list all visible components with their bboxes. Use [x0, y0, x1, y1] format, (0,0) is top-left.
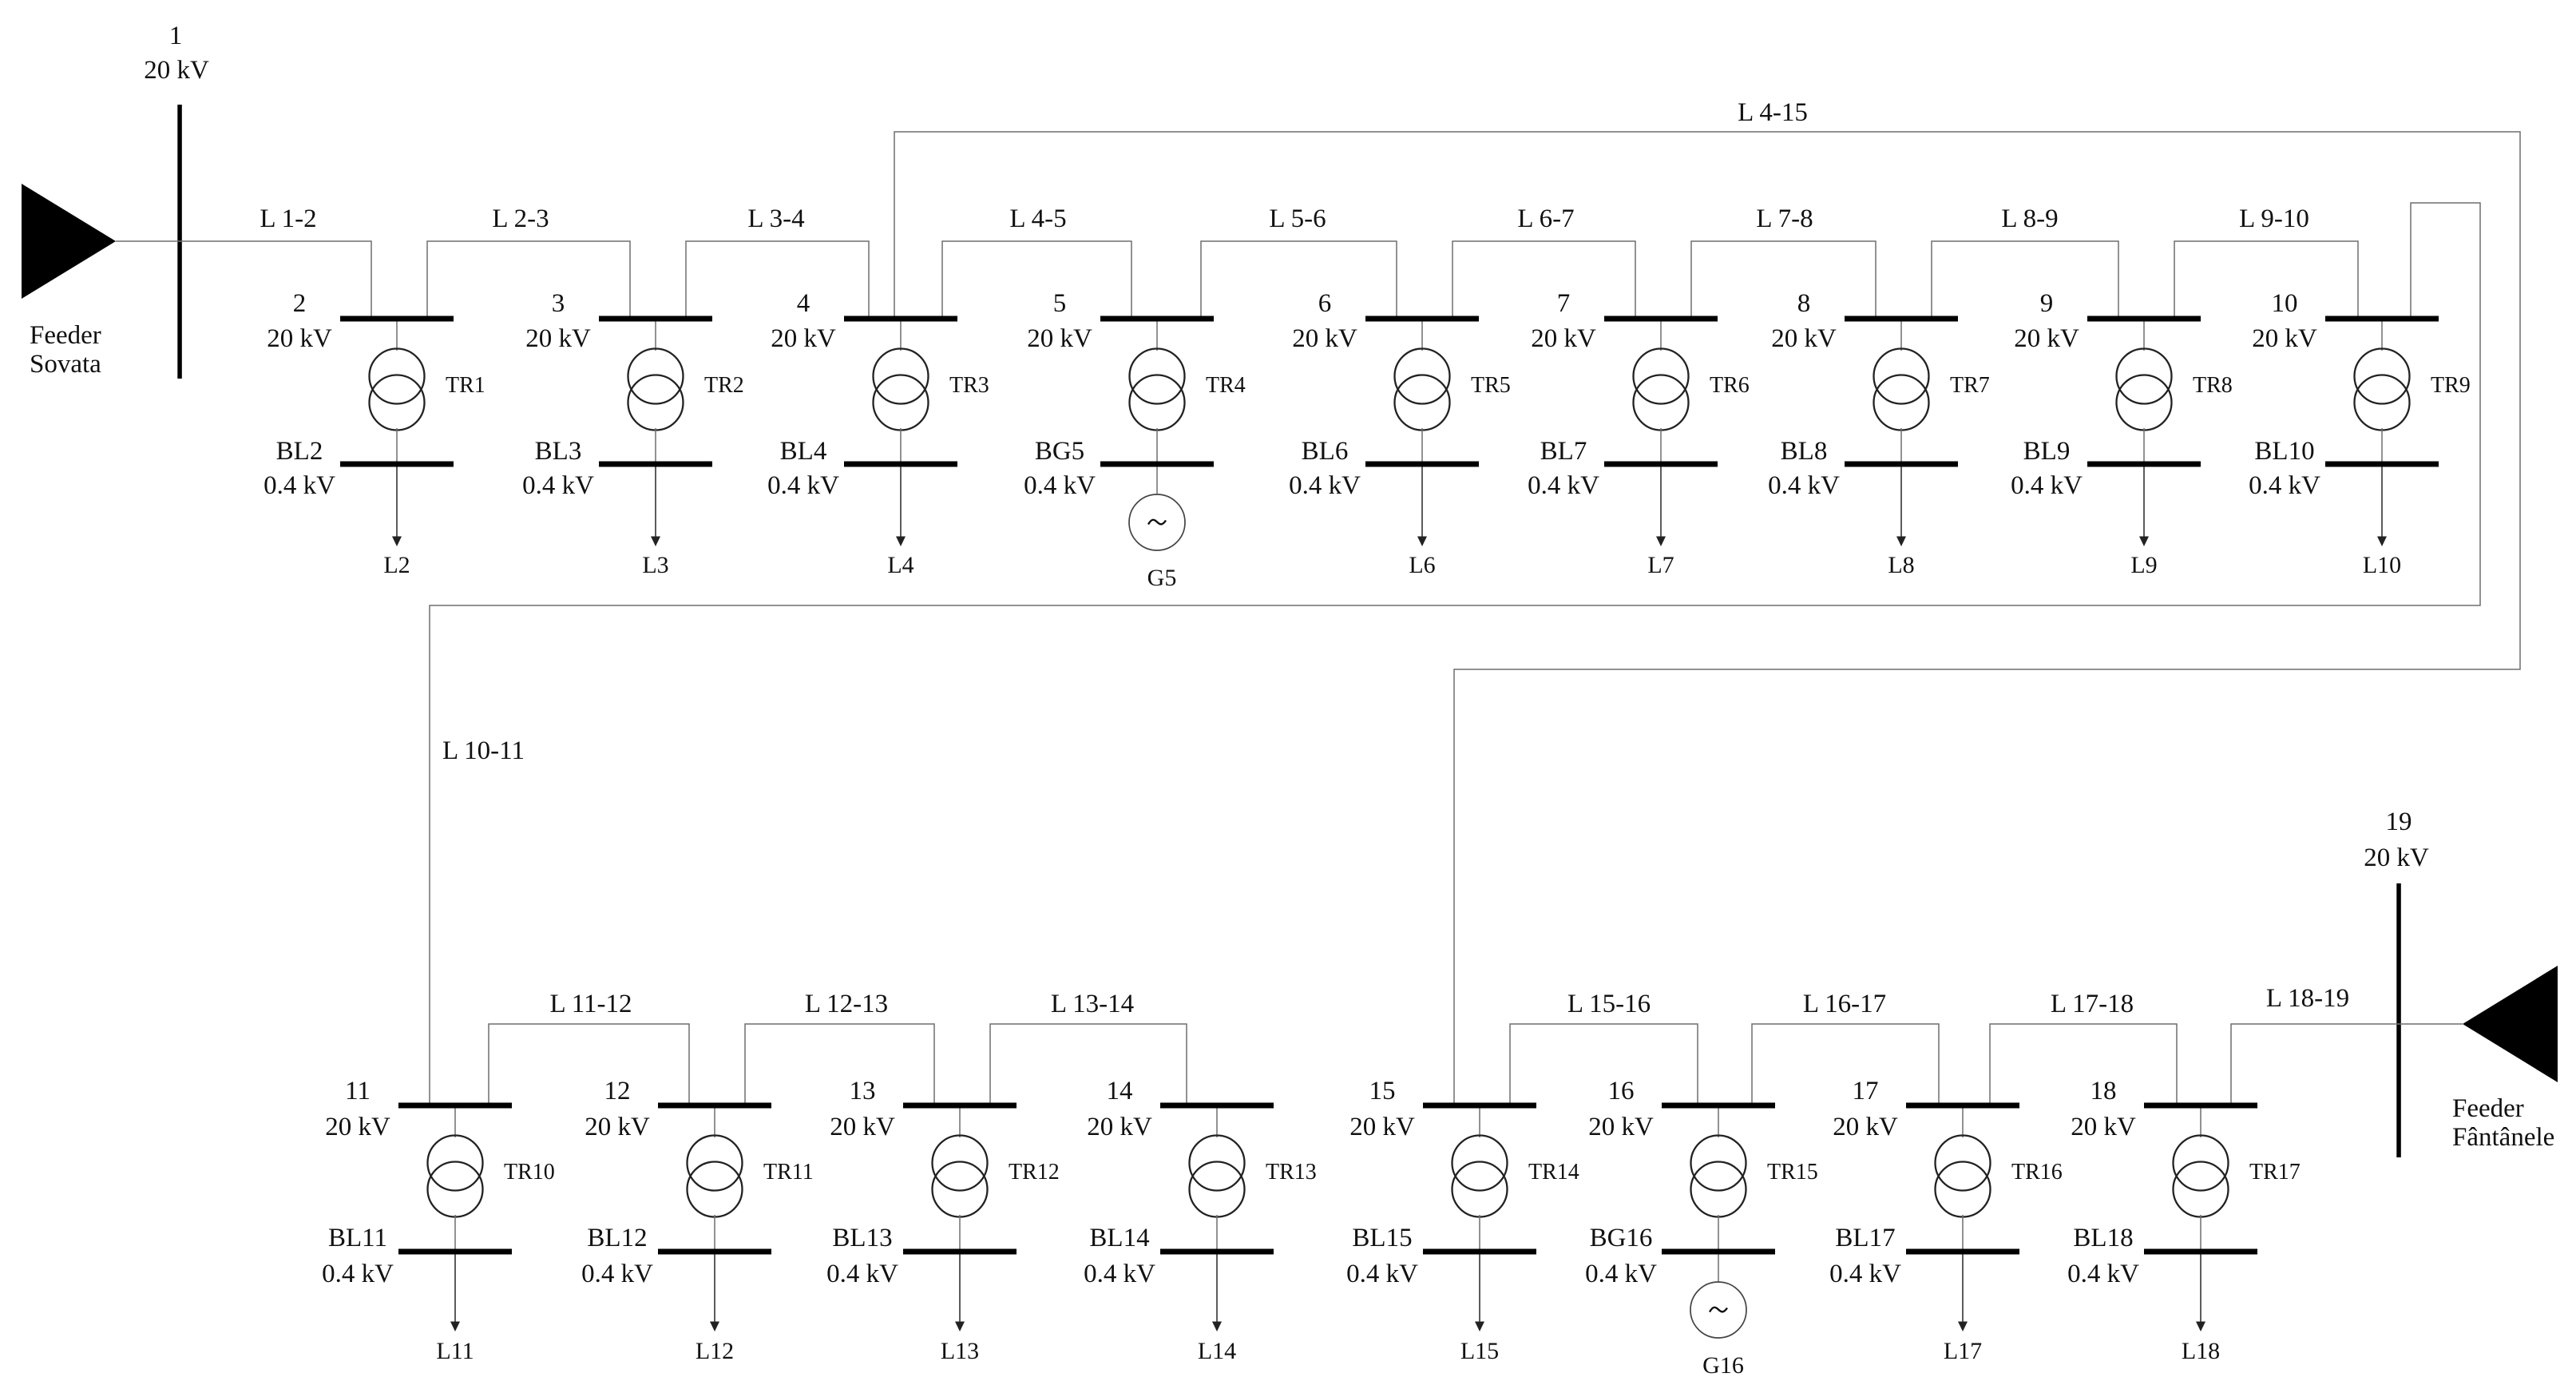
- busbar 10 (20 kV): [2325, 316, 2439, 322]
- svg-text:6: 6: [1318, 289, 1332, 318]
- label 20 kV (bus 19): [2364, 843, 2429, 872]
- label load L15: [1460, 1338, 1499, 1364]
- label TR17: [2249, 1160, 2301, 1185]
- label TR12: [1009, 1160, 1060, 1185]
- svg-text:TR6: TR6: [1710, 373, 1750, 398]
- busbar BL6 (0.4 kV): [1365, 462, 1479, 467]
- wire bus 4 to transformer TR3: [900, 322, 902, 351]
- label TR5: [1471, 373, 1511, 398]
- load L11 arrow: [450, 1255, 460, 1332]
- svg-text:BL10: BL10: [2254, 437, 2314, 466]
- transformer TR6: [1634, 349, 1689, 431]
- svg-text:BG16: BG16: [1590, 1224, 1653, 1252]
- busbar 13 (20 kV): [903, 1103, 1017, 1109]
- svg-text:20 kV: 20 kV: [1588, 1113, 1654, 1141]
- feeder Fantanele source arrow: [2463, 966, 2558, 1082]
- svg-text:20 kV: 20 kV: [1349, 1113, 1415, 1141]
- label bus 2 number: [293, 289, 307, 318]
- busbar 15 (20 kV): [1423, 1103, 1536, 1109]
- label bus 7 number: [1557, 289, 1571, 318]
- label 0.4 kV (bus 16): [1585, 1260, 1657, 1288]
- wire bus 5 to transformer TR4: [1156, 322, 1158, 351]
- label 20 kV (bus 18): [2071, 1113, 2136, 1141]
- svg-text:0.4 kV: 0.4 kV: [1024, 471, 1096, 500]
- busbar 17 (20 kV): [1906, 1103, 2019, 1109]
- label load L6: [1409, 552, 1435, 578]
- svg-text:0.4 kV: 0.4 kV: [581, 1260, 653, 1288]
- svg-text:20 kV: 20 kV: [2071, 1113, 2136, 1141]
- svg-text:BL3: BL3: [535, 437, 582, 466]
- label L 2-3: [492, 204, 549, 233]
- label L 11-12: [550, 990, 632, 1018]
- svg-text:BL17: BL17: [1835, 1224, 1895, 1252]
- wire bus 2 to transformer TR1: [396, 322, 398, 351]
- label BL18: [2073, 1224, 2133, 1252]
- wire L 10-11 (bus 10 to bus 11 tie line): [430, 203, 2480, 1103]
- wire L 11-12: [489, 1024, 689, 1103]
- wire transformer TR5 to busbar BL6: [1421, 428, 1423, 462]
- label 20 kV (bus 12): [585, 1113, 650, 1141]
- svg-text:L 12-13: L 12-13: [805, 990, 888, 1018]
- svg-text:BL6: BL6: [1302, 437, 1349, 466]
- wire transformer TR11 to busbar BL12: [714, 1215, 715, 1249]
- svg-text:L8: L8: [1888, 552, 1914, 578]
- wire transformer TR2 to busbar BL3: [655, 428, 656, 462]
- wire bus 3 to transformer TR2: [655, 322, 656, 351]
- svg-text:20 kV: 20 kV: [1292, 324, 1357, 353]
- wire transformer TR8 to busbar BL9: [2143, 428, 2145, 462]
- wire transformer TR17 to busbar BL18: [2200, 1215, 2201, 1249]
- label bus 9 number: [2040, 289, 2054, 318]
- busbar 16 (20 kV): [1662, 1103, 1775, 1109]
- busbar 8 (20 kV): [1845, 316, 1958, 322]
- label load L11: [436, 1338, 474, 1364]
- wire L 18-19: [2231, 1024, 2463, 1103]
- svg-text:0.4 kV: 0.4 kV: [2249, 471, 2320, 500]
- busbar BL7 (0.4 kV): [1604, 462, 1718, 467]
- svg-text:G5: G5: [1147, 565, 1177, 591]
- svg-text:4: 4: [797, 289, 810, 318]
- label bus 6 number: [1318, 289, 1332, 318]
- svg-text:9: 9: [2040, 289, 2054, 318]
- wire transformer TR12 to busbar BL13: [959, 1215, 961, 1249]
- wire bus 12 to transformer TR11: [714, 1109, 715, 1138]
- load L4 arrow: [896, 467, 906, 547]
- label BG16: [1590, 1224, 1653, 1252]
- label BL2: [276, 437, 323, 466]
- svg-text:L 10-11: L 10-11: [442, 736, 525, 765]
- label L 3-4: [747, 204, 804, 233]
- svg-text:14: 14: [1107, 1077, 1133, 1105]
- label TR14: [1528, 1160, 1579, 1185]
- svg-text:Fântânele: Fântânele: [2452, 1123, 2554, 1152]
- wire L 2-3: [427, 241, 630, 316]
- label L 1-2: [260, 204, 316, 233]
- svg-text:Feeder: Feeder: [30, 321, 101, 350]
- wire transformer TR4 to busbar BG5: [1156, 428, 1158, 462]
- label load L12: [696, 1338, 734, 1364]
- label BL4: [780, 437, 827, 466]
- label BL8: [1781, 437, 1828, 466]
- wire L 4-15 (bus 4 to bus 15 tie line): [894, 132, 2520, 1103]
- svg-text:20 kV: 20 kV: [1027, 324, 1092, 353]
- svg-text:L18: L18: [2182, 1338, 2220, 1364]
- svg-text:0.4 kV: 0.4 kV: [1289, 471, 1361, 500]
- label TR1: [446, 373, 485, 398]
- svg-text:BL14: BL14: [1089, 1224, 1149, 1252]
- label BG5: [1035, 437, 1084, 466]
- label L 5-6: [1269, 204, 1326, 233]
- svg-text:12: 12: [604, 1077, 631, 1105]
- svg-text:L12: L12: [696, 1338, 734, 1364]
- svg-text:0.4 kV: 0.4 kV: [322, 1260, 394, 1288]
- wire bus 14 to transformer TR13: [1216, 1109, 1218, 1138]
- svg-text:BL9: BL9: [2023, 437, 2071, 466]
- svg-text:20 kV: 20 kV: [325, 1113, 390, 1141]
- label bus 16 number: [1608, 1077, 1635, 1105]
- label TR7: [1950, 373, 1990, 398]
- wire busbar BG16 to generator G16: [1718, 1255, 1719, 1283]
- label L 8-9: [2001, 204, 2058, 233]
- svg-text:BL11: BL11: [328, 1224, 387, 1252]
- svg-text:TR16: TR16: [2011, 1160, 2063, 1185]
- busbar BL14 (0.4 kV): [1160, 1249, 1274, 1255]
- load L3 arrow: [651, 467, 660, 547]
- svg-text:Feeder: Feeder: [2452, 1094, 2524, 1123]
- label bus 1: [169, 22, 183, 50]
- wire transformer TR1 to busbar BL2: [396, 428, 398, 462]
- wire L 16-17: [1752, 1024, 1939, 1103]
- svg-text:10: 10: [2272, 289, 2298, 318]
- svg-text:0.4 kV: 0.4 kV: [1829, 1260, 1901, 1288]
- svg-text:L9: L9: [2130, 552, 2157, 578]
- label BL12: [587, 1224, 647, 1252]
- load L17 arrow: [1958, 1255, 1968, 1332]
- label load L4: [887, 552, 913, 578]
- svg-text:0.4 kV: 0.4 kV: [1768, 471, 1840, 500]
- svg-text:L11: L11: [436, 1338, 474, 1364]
- load L6 arrow: [1417, 467, 1427, 547]
- label 0.4 kV (bus 8): [1768, 471, 1840, 500]
- svg-text:TR4: TR4: [1206, 373, 1246, 398]
- label TR9: [2431, 373, 2471, 398]
- busbar 1 (20 kV station bus): [177, 105, 182, 379]
- wire L 6-7: [1452, 241, 1635, 316]
- label load L3: [642, 552, 668, 578]
- busbar BL18 (0.4 kV): [2144, 1249, 2257, 1255]
- wire L 17-18: [1990, 1024, 2177, 1103]
- wire transformer TR6 to busbar BL7: [1660, 428, 1662, 462]
- load L7 arrow: [1656, 467, 1666, 547]
- svg-text:TR13: TR13: [1266, 1160, 1317, 1185]
- transformer TR4: [1130, 349, 1185, 431]
- svg-text:L15: L15: [1460, 1338, 1499, 1364]
- label 20 kV (bus 13): [830, 1113, 895, 1141]
- label BL6: [1302, 437, 1349, 466]
- svg-text:BL15: BL15: [1352, 1224, 1412, 1252]
- label BL13: [832, 1224, 892, 1252]
- label TR10: [504, 1160, 555, 1185]
- svg-text:BL13: BL13: [832, 1224, 892, 1252]
- transformer TR16: [1936, 1136, 1991, 1217]
- label 20 kV (bus 11): [325, 1113, 390, 1141]
- label generator G5: [1147, 565, 1177, 591]
- transformer TR8: [2117, 349, 2172, 431]
- wire transformer TR3 to busbar BL4: [900, 428, 902, 462]
- wire L 9-10: [2174, 241, 2358, 316]
- generator G5 (synchronous machine): [1129, 494, 1185, 550]
- svg-text:0.4 kV: 0.4 kV: [522, 471, 594, 500]
- svg-text:0.4 kV: 0.4 kV: [1585, 1260, 1657, 1288]
- busbar 4 (20 kV): [844, 316, 957, 322]
- wire L 15-16: [1510, 1024, 1698, 1103]
- svg-text:15: 15: [1369, 1077, 1396, 1105]
- label 20 kV (bus 8): [1771, 324, 1837, 353]
- svg-text:BL4: BL4: [780, 437, 827, 466]
- busbar 18 (20 kV): [2144, 1103, 2257, 1109]
- busbar 9 (20 kV): [2087, 316, 2201, 322]
- busbar BL9 (0.4 kV): [2087, 462, 2201, 467]
- svg-text:Sovata: Sovata: [30, 350, 101, 379]
- svg-text:0.4 kV: 0.4 kV: [767, 471, 839, 500]
- svg-text:L 15-16: L 15-16: [1567, 990, 1651, 1018]
- label 0.4 kV (bus 11): [322, 1260, 394, 1288]
- svg-text:18: 18: [2091, 1077, 2117, 1105]
- label bus 13 number: [850, 1077, 876, 1105]
- svg-text:13: 13: [850, 1077, 876, 1105]
- svg-text:L 8-9: L 8-9: [2001, 204, 2058, 233]
- svg-text:5: 5: [1053, 289, 1067, 318]
- svg-text:L10: L10: [2363, 552, 2401, 578]
- svg-text:0.4 kV: 0.4 kV: [2067, 1260, 2139, 1288]
- label L 6-7: [1517, 204, 1574, 233]
- load L15 arrow: [1475, 1255, 1484, 1332]
- load L13 arrow: [955, 1255, 965, 1332]
- svg-text:L 9-10: L 9-10: [2239, 204, 2309, 233]
- label L 9-10: [2239, 204, 2309, 233]
- transformer TR2: [628, 349, 684, 431]
- svg-text:L2: L2: [383, 552, 410, 578]
- load L12 arrow: [710, 1255, 719, 1332]
- label BL3: [535, 437, 582, 466]
- label Feeder Sovata: [30, 321, 101, 379]
- busbar 2 (20 kV): [340, 316, 454, 322]
- label TR3: [949, 373, 989, 398]
- label Feeder Fantanele: [2452, 1094, 2554, 1152]
- wire bus 9 to transformer TR8: [2143, 322, 2145, 351]
- wire bus 15 to transformer TR14: [1479, 1109, 1480, 1138]
- wire transformer TR16 to busbar BL17: [1962, 1215, 1964, 1249]
- svg-text:L13: L13: [941, 1338, 979, 1364]
- label 0.4 kV (bus 7): [1528, 471, 1599, 500]
- label 20 kV (bus 10): [2252, 324, 2317, 353]
- label 0.4 kV (bus 18): [2067, 1260, 2139, 1288]
- wire bus 11 to transformer TR10: [454, 1109, 456, 1138]
- svg-text:TR7: TR7: [1950, 373, 1990, 398]
- label load L18: [2182, 1338, 2220, 1364]
- svg-text:L4: L4: [887, 552, 913, 578]
- label bus 17 number: [1853, 1077, 1879, 1105]
- label 0.4 kV (bus 6): [1289, 471, 1361, 500]
- label L 18-19: [2266, 984, 2349, 1013]
- svg-text:L 3-4: L 3-4: [747, 204, 804, 233]
- wire transformer TR14 to busbar BL15: [1479, 1215, 1480, 1249]
- load L10 arrow: [2377, 467, 2387, 547]
- label bus 10 number: [2272, 289, 2298, 318]
- svg-text:20 kV: 20 kV: [267, 324, 332, 353]
- svg-text:TR1: TR1: [446, 373, 485, 398]
- label bus 15 number: [1369, 1077, 1396, 1105]
- label load L10: [2363, 552, 2401, 578]
- svg-text:3: 3: [552, 289, 565, 318]
- svg-text:L 18-19: L 18-19: [2266, 984, 2349, 1013]
- svg-text:BL18: BL18: [2073, 1224, 2133, 1252]
- svg-text:20 kV: 20 kV: [2014, 324, 2079, 353]
- svg-text:20 kV: 20 kV: [830, 1113, 895, 1141]
- load L8 arrow: [1896, 467, 1906, 547]
- label load L13: [941, 1338, 979, 1364]
- label bus 14 number: [1107, 1077, 1133, 1105]
- busbar BG16 (0.4 kV): [1662, 1249, 1775, 1255]
- label TR13: [1266, 1160, 1317, 1185]
- label 20 kV (bus 5): [1027, 324, 1092, 353]
- svg-text:1: 1: [169, 22, 183, 50]
- label 20 kV (bus 7): [1531, 324, 1596, 353]
- label BL9: [2023, 437, 2071, 466]
- svg-text:L 13-14: L 13-14: [1051, 990, 1134, 1018]
- wire bus 16 to transformer TR15: [1718, 1109, 1719, 1138]
- label 20 kV (bus 2): [267, 324, 332, 353]
- wire bus 10 to transformer TR9: [2381, 322, 2383, 351]
- svg-text:20 kV: 20 kV: [525, 324, 591, 353]
- svg-text:BG5: BG5: [1035, 437, 1084, 466]
- label 0.4 kV (bus 13): [826, 1260, 898, 1288]
- svg-text:L 7-8: L 7-8: [1756, 204, 1813, 233]
- busbar BG5 (0.4 kV): [1100, 462, 1214, 467]
- svg-text:L 6-7: L 6-7: [1517, 204, 1574, 233]
- wire transformer TR15 to busbar BG16: [1718, 1215, 1719, 1249]
- svg-text:L6: L6: [1409, 552, 1435, 578]
- wire busbar BG5 to generator G5: [1156, 467, 1158, 495]
- svg-text:L 1-2: L 1-2: [260, 204, 316, 233]
- transformer TR13: [1190, 1136, 1245, 1217]
- busbar BL12 (0.4 kV): [658, 1249, 771, 1255]
- busbar 6 (20 kV): [1365, 316, 1479, 322]
- label 0.4 kV (bus 15): [1346, 1260, 1418, 1288]
- svg-text:11: 11: [345, 1077, 371, 1105]
- svg-text:TR10: TR10: [504, 1160, 555, 1185]
- label BL14: [1089, 1224, 1149, 1252]
- label 20 kV (bus 15): [1349, 1113, 1415, 1141]
- label generator G16: [1702, 1352, 1744, 1379]
- label TR4: [1206, 373, 1246, 398]
- transformer TR3: [874, 349, 929, 431]
- label load L9: [2130, 552, 2157, 578]
- svg-text:L3: L3: [642, 552, 668, 578]
- label bus 3 number: [552, 289, 565, 318]
- svg-text:8: 8: [1797, 289, 1811, 318]
- svg-text:20 kV: 20 kV: [1087, 1113, 1152, 1141]
- svg-text:TR17: TR17: [2249, 1160, 2301, 1185]
- svg-text:G16: G16: [1702, 1352, 1744, 1379]
- label TR15: [1767, 1160, 1818, 1185]
- label 20 kV (bus 16): [1588, 1113, 1654, 1141]
- label BL10: [2254, 437, 2314, 466]
- svg-text:0.4 kV: 0.4 kV: [1084, 1260, 1155, 1288]
- transformer TR15: [1691, 1136, 1746, 1217]
- busbar BL17 (0.4 kV): [1906, 1249, 2019, 1255]
- label BL7: [1540, 437, 1587, 466]
- svg-text:20 kV: 20 kV: [1531, 324, 1596, 353]
- wire transformer TR7 to busbar BL8: [1900, 428, 1902, 462]
- label L 15-16: [1567, 990, 1651, 1018]
- svg-text:BL8: BL8: [1781, 437, 1828, 466]
- wire bus 13 to transformer TR12: [959, 1109, 961, 1138]
- feeder Sovata source arrow: [22, 184, 116, 299]
- busbar 19 (20 kV station bus): [2396, 883, 2401, 1157]
- label L 16-17: [1803, 990, 1886, 1018]
- load L2 arrow: [392, 467, 402, 547]
- label TR11: [763, 1160, 814, 1185]
- svg-text:20 kV: 20 kV: [2252, 324, 2317, 353]
- svg-text:L 17-18: L 17-18: [2051, 990, 2134, 1018]
- svg-text:TR12: TR12: [1009, 1160, 1060, 1185]
- wire bus 17 to transformer TR16: [1962, 1109, 1964, 1138]
- svg-text:TR14: TR14: [1528, 1160, 1579, 1185]
- label TR6: [1710, 373, 1750, 398]
- label 0.4 kV (bus 2): [264, 471, 335, 500]
- label 0.4 kV (bus 10): [2249, 471, 2320, 500]
- svg-text:L 4-5: L 4-5: [1009, 204, 1066, 233]
- wire bus 18 to transformer TR17: [2200, 1109, 2201, 1138]
- label 20 kV (bus 17): [1833, 1113, 1898, 1141]
- label load L14: [1198, 1338, 1236, 1364]
- wire L 7-8: [1691, 241, 1876, 316]
- label L 10-11: [442, 736, 525, 765]
- label L 4-15: [1738, 98, 1808, 127]
- label bus 4 number: [797, 289, 810, 318]
- svg-text:TR11: TR11: [763, 1160, 814, 1185]
- load L9 arrow: [2139, 467, 2149, 547]
- busbar BL2 (0.4 kV): [340, 462, 454, 467]
- label L 12-13: [805, 990, 888, 1018]
- svg-text:19: 19: [2386, 808, 2412, 836]
- transformer TR1: [370, 349, 425, 431]
- transformer TR17: [2174, 1136, 2229, 1217]
- label 20 kV (bus 1): [144, 56, 209, 85]
- busbar 14 (20 kV): [1160, 1103, 1274, 1109]
- label 0.4 kV (bus 9): [2011, 471, 2083, 500]
- busbar BL8 (0.4 kV): [1845, 462, 1958, 467]
- label load L17: [1944, 1338, 1982, 1364]
- label bus 12 number: [604, 1077, 631, 1105]
- label 0.4 kV (bus 5): [1024, 471, 1096, 500]
- busbar 12 (20 kV): [658, 1103, 771, 1109]
- svg-text:L17: L17: [1944, 1338, 1982, 1364]
- busbar BL4 (0.4 kV): [844, 462, 957, 467]
- busbar BL15 (0.4 kV): [1423, 1249, 1536, 1255]
- busbar BL11 (0.4 kV): [398, 1249, 512, 1255]
- svg-text:L 16-17: L 16-17: [1803, 990, 1886, 1018]
- svg-text:TR2: TR2: [704, 373, 744, 398]
- wire transformer TR10 to busbar BL11: [454, 1215, 456, 1249]
- label bus 11 number: [345, 1077, 371, 1105]
- label bus 19: [2386, 808, 2412, 836]
- svg-text:0.4 kV: 0.4 kV: [1346, 1260, 1418, 1288]
- svg-text:L 11-12: L 11-12: [550, 990, 632, 1018]
- svg-text:20 kV: 20 kV: [144, 56, 209, 85]
- wire L 5-6: [1201, 241, 1397, 316]
